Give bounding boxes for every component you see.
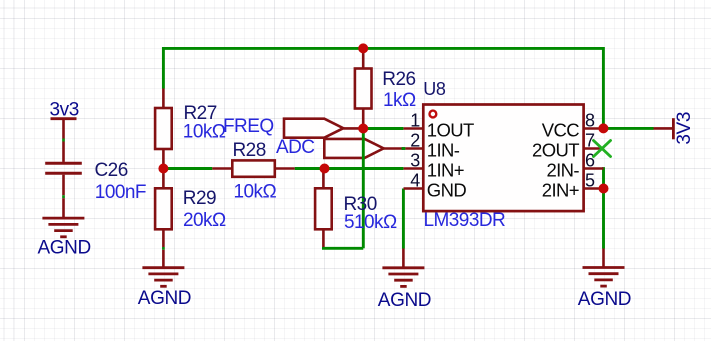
wire pin 6 / pin 5 down to AGND <box>602 167 605 248</box>
svg-text:510kΩ: 510kΩ <box>344 212 397 233</box>
junction node A (FREQ / R26 / pin 1) <box>358 124 368 134</box>
pin 6 <box>584 167 604 170</box>
svg-text:5: 5 <box>585 171 595 191</box>
svg-text:1kΩ: 1kΩ <box>383 90 416 111</box>
wire vertical feedback net <box>362 129 365 249</box>
svg-text:6: 6 <box>585 151 595 171</box>
svg-text:AGND: AGND <box>378 290 431 311</box>
svg-text:3v3: 3v3 <box>50 100 79 121</box>
wire node A to pin 1 <box>363 127 403 130</box>
svg-text:U8: U8 <box>423 79 446 99</box>
wire pin 4 GND down <box>402 189 405 249</box>
resistor R27 <box>155 89 172 169</box>
ground AGND (right) <box>583 249 625 287</box>
svg-text:4: 4 <box>410 171 420 191</box>
resistor R28 <box>212 160 294 176</box>
svg-text:1OUT: 1OUT <box>427 120 474 141</box>
no-ERC marker X on pin 7 <box>594 141 611 157</box>
wire top power rail <box>163 47 603 50</box>
junction node pin 5 <box>599 184 609 194</box>
svg-text:AGND: AGND <box>578 289 631 310</box>
svg-text:2: 2 <box>410 131 420 151</box>
pin 3 <box>404 167 424 170</box>
resistor R30 <box>315 169 332 248</box>
svg-text:3: 3 <box>410 151 420 171</box>
ground AGND (under pin 4) <box>382 249 424 287</box>
svg-text:2OUT: 2OUT <box>532 140 579 161</box>
wire speck C26 to AGND <box>62 195 65 198</box>
svg-text:1IN+: 1IN+ <box>427 160 464 181</box>
wire speck ADC to pin 2 <box>402 147 406 150</box>
resistor R29 <box>155 169 172 248</box>
op-amp U8 body <box>423 105 583 212</box>
resistor R26 <box>355 48 372 128</box>
svg-text:20kΩ: 20kΩ <box>183 210 226 231</box>
wire speck 3v3 to C26 <box>62 139 65 142</box>
U8 pin-1 indicator ring <box>430 111 437 118</box>
svg-text:AGND: AGND <box>38 238 91 259</box>
svg-text:8: 8 <box>585 111 595 131</box>
svg-text:1: 1 <box>410 111 420 131</box>
svg-text:C26: C26 <box>95 160 128 181</box>
ground AGND (left, under C26) <box>42 198 84 237</box>
svg-text:2IN+: 2IN+ <box>542 180 579 201</box>
svg-text:LM393DR: LM393DR <box>424 210 506 231</box>
pin 7 <box>584 147 604 150</box>
wire VCC to 3V3 power port <box>603 127 653 130</box>
svg-text:ADC: ADC <box>276 137 314 158</box>
svg-text:VCC: VCC <box>542 120 579 141</box>
svg-text:GND: GND <box>427 180 467 201</box>
junction node at R26 top <box>358 43 368 53</box>
svg-text:2IN-: 2IN- <box>546 160 579 181</box>
wire R30 bottom to feedback net <box>322 247 363 250</box>
svg-text:AGND: AGND <box>138 288 191 309</box>
pin 2 <box>405 147 423 150</box>
svg-text:1IN-: 1IN- <box>427 140 460 161</box>
svg-text:FREQ: FREQ <box>223 116 274 137</box>
junction node divider (R27/R29/R28) <box>158 164 168 174</box>
svg-text:R29: R29 <box>183 188 216 209</box>
pin 5 <box>584 187 604 190</box>
wire speck R29 to AGND <box>162 247 165 250</box>
pin 4 <box>404 187 424 190</box>
junction node R30 top <box>320 164 330 174</box>
svg-text:10kΩ: 10kΩ <box>234 182 277 203</box>
power port 3V3 (right) <box>654 118 674 139</box>
capacitor C26 <box>45 142 82 196</box>
svg-text:100nF: 100nF <box>95 182 146 203</box>
svg-text:R26: R26 <box>382 69 415 90</box>
port ADC <box>324 139 403 158</box>
wire left vertical to R27 <box>162 47 165 89</box>
wire R28 to pin 3 <box>295 167 404 170</box>
svg-text:10kΩ: 10kΩ <box>183 122 226 143</box>
svg-text:R28: R28 <box>233 140 266 161</box>
port FREQ <box>284 119 363 138</box>
wire divider node to R28 <box>163 167 212 170</box>
power port 3v3 (left) <box>51 119 77 139</box>
junction node VCC <box>598 123 608 133</box>
pin 8 <box>584 127 604 130</box>
ground AGND (under R29) <box>142 250 184 286</box>
pin 1 <box>404 127 424 130</box>
wire right vertical to VCC pin 8 <box>602 47 605 128</box>
svg-text:3V3: 3V3 <box>674 112 695 145</box>
